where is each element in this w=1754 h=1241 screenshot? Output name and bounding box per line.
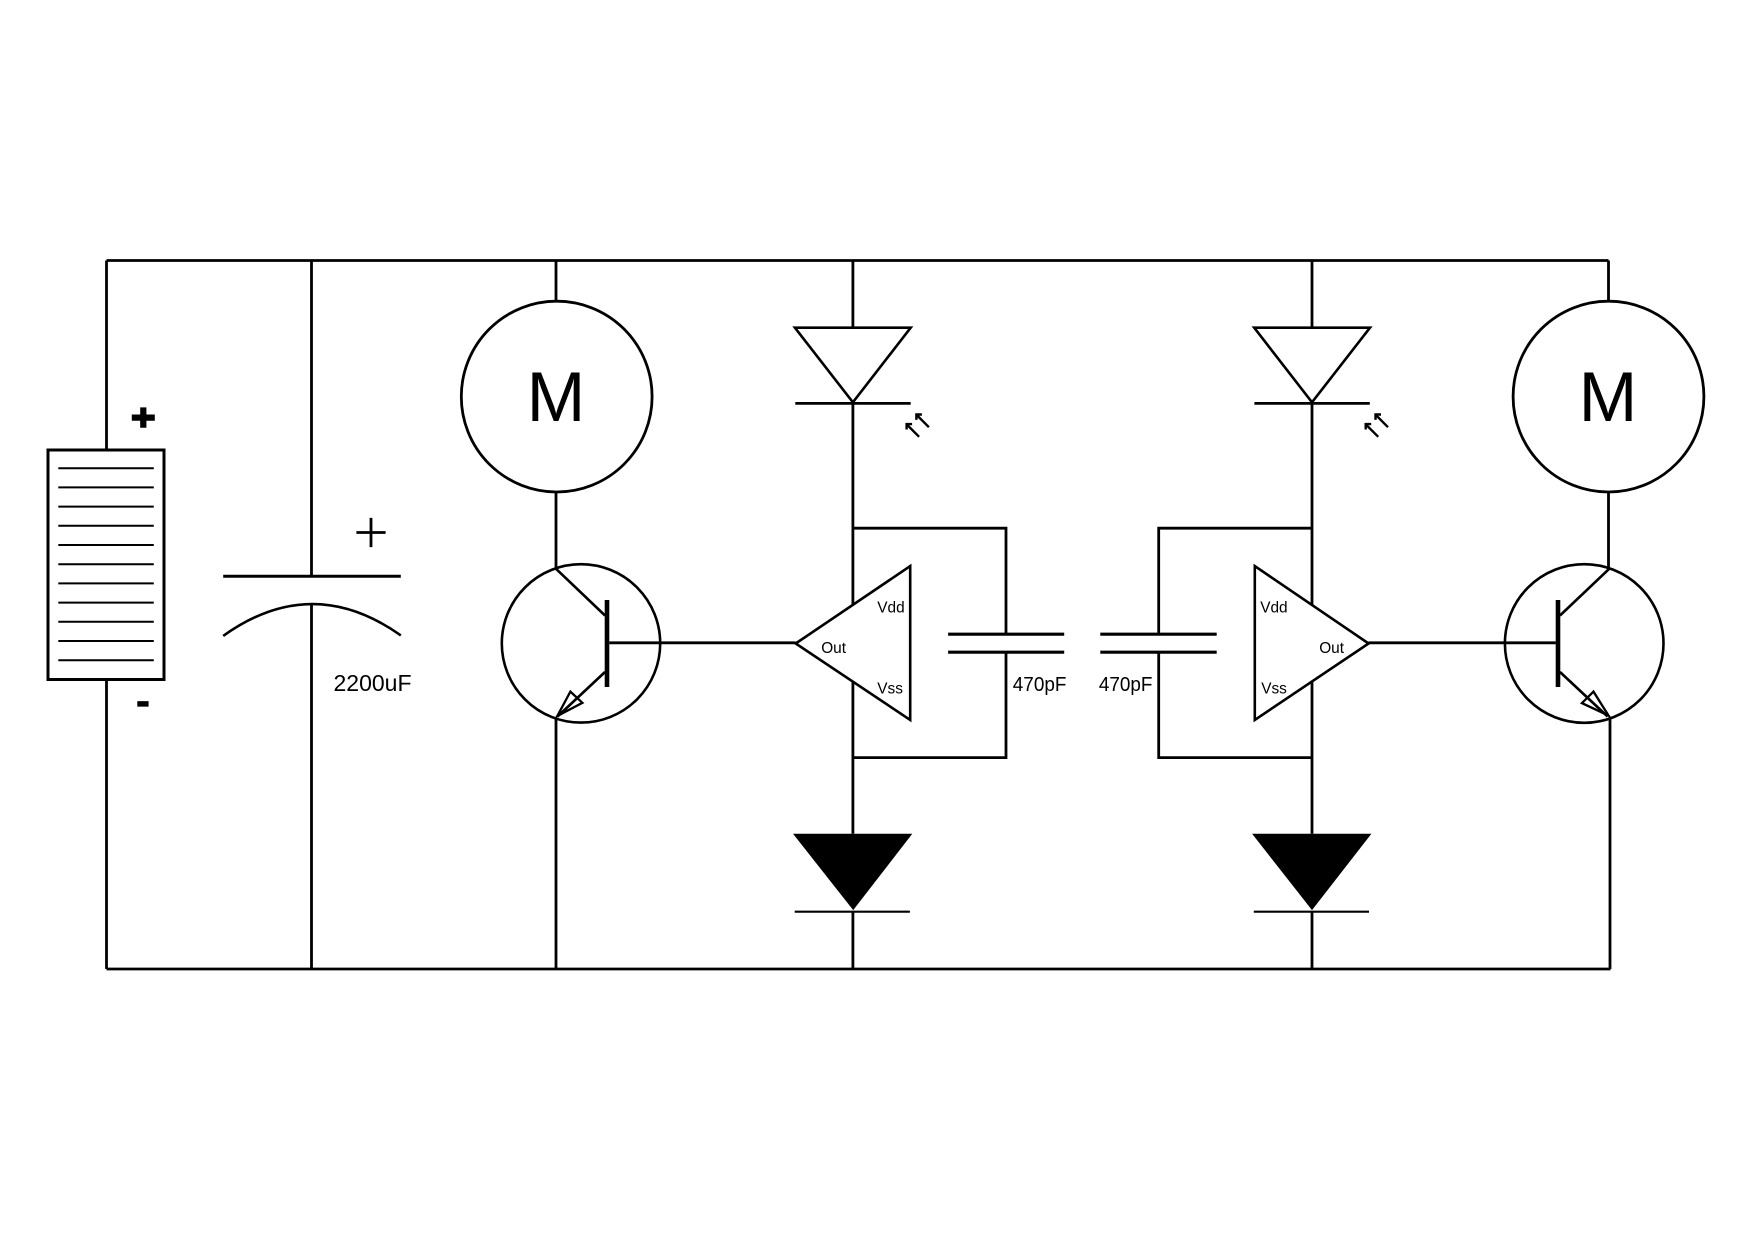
- label battery plus: [132, 407, 155, 427]
- svg-text:Out: Out: [821, 640, 847, 657]
- wire U1 Vss to diode D2: [852, 681, 855, 834]
- wire LED D1 branch top: [852, 261, 855, 328]
- wire U2 output to Q2 base: [1369, 641, 1556, 644]
- wire capacitor C2 to U1 Vss node: [853, 652, 1006, 757]
- svg-text:2200uF: 2200uF: [334, 670, 412, 696]
- wire D4 to bottom rail: [1311, 912, 1314, 969]
- capacitor C3 470pF: [1100, 634, 1216, 652]
- svg-text:M: M: [527, 357, 586, 436]
- capacitor C2 470pF: [948, 634, 1064, 652]
- svg-text:Out: Out: [1319, 640, 1345, 657]
- motor M2: [1513, 301, 1704, 492]
- diode D2: [793, 834, 912, 912]
- label battery minus: [137, 701, 148, 707]
- transistor Q2: [1505, 564, 1664, 723]
- label D3 light arrows: [1366, 415, 1388, 437]
- wire motor M1 branch top: [555, 261, 558, 302]
- svg-text:Vss: Vss: [877, 681, 903, 698]
- label C1 polarity plus: [356, 518, 385, 547]
- wire capacitor C3 to U2 Vss node: [1159, 652, 1312, 757]
- wire motor M1 to transistor Q1: [555, 492, 558, 568]
- wire battery bottom to bottom rail: [105, 680, 108, 970]
- wire node Vdd2 to capacitor C3: [1159, 528, 1312, 634]
- wire motor M2 to transistor Q2: [1607, 492, 1610, 568]
- wire bottom rail: [107, 968, 1611, 971]
- svg-text:470pF: 470pF: [1099, 673, 1153, 696]
- diode D4: [1252, 834, 1371, 912]
- svg-text:Vdd: Vdd: [1260, 600, 1287, 617]
- wire LED D3 branch top: [1311, 261, 1314, 328]
- wire D1 cathode to U1 Vdd: [852, 403, 855, 605]
- svg-text:M: M: [1579, 357, 1638, 436]
- svg-text:470pF: 470pF: [1013, 673, 1067, 696]
- transistor Q1: [502, 564, 660, 722]
- label D1 light arrows: [907, 415, 929, 437]
- inverter U1: [796, 566, 911, 720]
- wire top rail to motor M2: [1607, 261, 1610, 302]
- solar cell BT1: [48, 450, 164, 680]
- wire Q2 emitter to bottom rail: [1609, 717, 1612, 970]
- wire node Vdd to capacitor C2: [853, 528, 1006, 634]
- capacitor C1 2200uF: [223, 576, 401, 636]
- wire D3 cathode to U2 Vdd: [1311, 403, 1314, 605]
- wire left vertical (battery to top rail): [105, 261, 108, 451]
- svg-text:Vdd: Vdd: [877, 600, 904, 617]
- inverter U2: [1255, 566, 1369, 720]
- wire Q1 base to U1 output: [609, 641, 795, 644]
- svg-text:Vss: Vss: [1261, 681, 1287, 698]
- LED D1: [795, 328, 911, 404]
- wire capacitor branch top: [310, 261, 313, 577]
- wire D2 to bottom rail: [852, 912, 855, 969]
- wire Q1 emitter to bottom rail: [555, 719, 558, 970]
- wire top rail: [107, 259, 1609, 262]
- motor M1: [461, 301, 652, 492]
- wire capacitor branch bottom: [310, 605, 313, 969]
- wire U2 Vss to diode D4: [1311, 681, 1314, 834]
- LED D3: [1254, 328, 1370, 404]
